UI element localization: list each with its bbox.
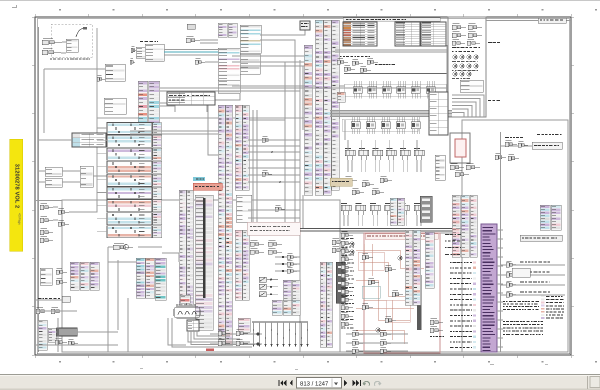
dashed enclosure A (51, 24, 92, 57)
stair verticals (285, 60, 303, 232)
note block L9 (503, 321, 543, 335)
strip H1 (179, 190, 194, 305)
salmon harness box P1 (356, 233, 440, 353)
legend table D6 (421, 22, 446, 46)
dark bar O2 (336, 262, 345, 303)
connector P6 (130, 58, 135, 64)
component row M4 (36, 307, 64, 313)
connector pair N1 (56, 268, 67, 284)
symbols row I4 (250, 240, 282, 254)
hatched bar M5c (57, 328, 77, 336)
bus wires D (335, 45, 447, 117)
wires F2 (39, 171, 108, 182)
ground drops I2 (252, 322, 309, 348)
region outline center-bottom (340, 233, 462, 352)
cyan wire run (164, 50, 218, 56)
connector F2 (108, 130, 128, 147)
strip M5a (38, 320, 47, 350)
strips K3 (452, 195, 477, 257)
module C2 (240, 25, 261, 53)
connector small C5 (300, 21, 310, 30)
module bank wires (97, 128, 107, 231)
module H8 (180, 295, 199, 331)
svg-text:43 Page: 43 Page (18, 213, 22, 225)
bus strip column D3 (332, 20, 340, 190)
symbols J10 (332, 238, 354, 254)
note block L7 (503, 301, 539, 310)
left vertical bus wire (38, 27, 40, 352)
relay row J3 (341, 203, 424, 226)
relay row J1 (345, 140, 424, 172)
module A1 (66, 39, 78, 52)
wire top right (486, 18, 571, 23)
header box J9 (365, 234, 438, 240)
wire loop C (208, 86, 345, 155)
pin column G0b (149, 81, 160, 125)
wires H verticals (248, 110, 300, 222)
module B1 (136, 47, 150, 58)
prev-page button (290, 380, 293, 386)
valve feed box D10 (337, 92, 448, 135)
cell strip I1c (283, 280, 300, 301)
bottom comps O4 (210, 329, 262, 345)
block L4 (540, 205, 561, 230)
connector F5 (58, 208, 69, 226)
valve row D8 (344, 74, 447, 99)
module C4 (218, 80, 240, 93)
label L3 (505, 134, 562, 138)
svg-text:813 / 1247: 813 / 1247 (300, 381, 329, 388)
left connector rows P6 (341, 231, 354, 328)
components K2 (450, 163, 480, 176)
rotate-right icon (374, 381, 381, 385)
wire rows L6 (500, 261, 565, 297)
glyph rows E (453, 55, 478, 76)
connector P3 (97, 75, 105, 81)
text M3 (38, 296, 70, 302)
components J2 (345, 176, 392, 194)
region outline mid (97, 60, 340, 352)
bus bar H2 (195, 195, 213, 330)
driver flags I1 (259, 277, 278, 297)
connector P5 (131, 46, 137, 52)
legend table D5 (395, 22, 420, 46)
bottom feed wires (36, 251, 128, 352)
module A3 (104, 98, 126, 114)
wire stub A (61, 42, 66, 53)
cyan marks H6 (193, 177, 205, 181)
staircase wires E (452, 95, 484, 117)
wires F3 (53, 200, 97, 220)
toolbar background (0, 374, 600, 390)
module C3 (218, 48, 260, 80)
connector block C1 (218, 23, 237, 37)
main bus J8 (300, 229, 456, 232)
wires F1 (39, 138, 139, 140)
valve row D9 (342, 116, 420, 134)
connector P2 (42, 48, 61, 54)
module bank G1 (107, 123, 162, 238)
components M6 (55, 338, 78, 345)
header bar L5 (520, 235, 562, 241)
window top hairline (0, 0, 600, 1)
module E1 (460, 80, 483, 92)
region outline main top (97, 28, 447, 200)
schematic border frame (35, 17, 571, 355)
right inner vertical (500, 132, 502, 352)
strip H3 (218, 105, 233, 345)
wire row L1 (500, 140, 562, 149)
legend table D4 (343, 22, 377, 46)
connector strips G3 (136, 258, 166, 300)
wires G0 right (160, 88, 447, 112)
svg-text:31200278 VOL 2: 31200278 VOL 2 (14, 164, 20, 209)
wire y69 (44, 69, 105, 133)
region outline left-bottom (62, 200, 340, 352)
strip H4 (235, 105, 252, 332)
CAN terminator H7 (174, 305, 200, 319)
pair M2 (40, 268, 52, 285)
right label rows P7 (445, 234, 461, 255)
dark bar P3 (417, 275, 422, 330)
pin column G0a (138, 81, 148, 125)
region outline right (462, 120, 568, 352)
bottom comp rows P8 (346, 330, 408, 353)
label greek B (140, 41, 158, 42)
wire labels K4 (450, 261, 476, 348)
tan band J7 (330, 178, 352, 186)
legend header (343, 18, 440, 22)
strips M1 (70, 262, 99, 290)
salmon box comps P2 (362, 253, 403, 332)
rotate-left icon (362, 381, 369, 385)
components L2 (495, 153, 519, 160)
connector glyphs F4 (40, 203, 53, 242)
cell strip I1d (272, 300, 300, 315)
cluster E rows (452, 23, 482, 37)
wires M7 (36, 260, 118, 332)
next-page button (344, 380, 347, 387)
purple block stubs K6 (497, 230, 503, 347)
wires C right (232, 21, 310, 66)
legend L8 (541, 295, 564, 319)
module A2 (105, 64, 125, 81)
relay module F3 (45, 166, 93, 187)
labels E (452, 39, 500, 101)
component rows I1b (275, 253, 300, 273)
module F1 (72, 133, 106, 147)
page number field (297, 378, 342, 389)
salmon highlight H5 (193, 183, 222, 190)
wire texture bundle (36, 120, 462, 352)
cluster P5 (430, 318, 444, 337)
strips P4 (405, 230, 434, 305)
label A4 (50, 59, 90, 60)
striped component J4 (435, 155, 445, 180)
relay table G0d (167, 92, 215, 105)
strips O3 (320, 262, 333, 347)
wire B to C (195, 40, 218, 64)
bus strip column D1 (304, 45, 313, 195)
connector P1 (42, 38, 62, 44)
first-page button (278, 380, 286, 386)
harness bundle D (330, 111, 452, 117)
dark component J6 (420, 196, 432, 222)
nested box K1 (450, 133, 470, 163)
last-page button (353, 380, 362, 386)
connector cluster B3 (186, 24, 200, 43)
box H10 (247, 222, 300, 235)
bookmark tab (10, 139, 23, 251)
hook wire (76, 27, 87, 37)
components row D7 (337, 56, 395, 72)
loop wires H9 (168, 318, 252, 351)
gap comps (262, 136, 285, 211)
ECM purple block K5 (481, 224, 497, 352)
region outline top-right box (448, 17, 486, 117)
module B2 (145, 44, 164, 61)
strips J5 (390, 198, 405, 225)
bus strip column D2 (315, 20, 331, 195)
strip M5b (48, 328, 56, 342)
component G2 (108, 243, 162, 262)
